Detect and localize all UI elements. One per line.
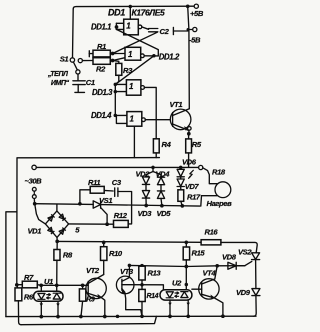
svg-text:С3: С3 bbox=[112, 178, 122, 187]
svg-text:R14: R14 bbox=[147, 293, 159, 300]
svg-text:VD1: VD1 bbox=[28, 227, 42, 236]
svg-text:R12: R12 bbox=[114, 211, 128, 220]
svg-text:R15: R15 bbox=[192, 248, 206, 257]
svg-text:С2: С2 bbox=[160, 27, 170, 36]
svg-text:К176ЛЕ5: К176ЛЕ5 bbox=[132, 8, 166, 18]
svg-text:DD1: DD1 bbox=[108, 8, 125, 18]
svg-text:R16: R16 bbox=[205, 227, 219, 236]
svg-text:VD7: VD7 bbox=[185, 182, 200, 191]
svg-text:ИМП“: ИМП“ bbox=[51, 80, 70, 87]
svg-text:С1: С1 bbox=[86, 78, 95, 87]
svg-text:R17: R17 bbox=[187, 192, 201, 201]
svg-text:R10: R10 bbox=[109, 249, 123, 258]
svg-text:Нагрев: Нагрев bbox=[207, 199, 233, 208]
svg-text:U2: U2 bbox=[172, 279, 182, 288]
svg-text:-5В: -5В bbox=[189, 36, 201, 45]
svg-text:VT1: VT1 bbox=[170, 100, 183, 109]
svg-text:R3: R3 bbox=[123, 66, 133, 75]
svg-text:R1: R1 bbox=[97, 42, 106, 51]
svg-text:R11: R11 bbox=[88, 178, 100, 187]
svg-text:VD2: VD2 bbox=[136, 170, 151, 179]
svg-text:DD1.2: DD1.2 bbox=[159, 53, 180, 62]
svg-text:DD1.4: DD1.4 bbox=[91, 111, 112, 120]
svg-text:DD1.3: DD1.3 bbox=[92, 88, 113, 97]
svg-text:VS1: VS1 bbox=[99, 196, 112, 205]
svg-text:R13: R13 bbox=[148, 268, 162, 277]
svg-text:R18: R18 bbox=[212, 168, 226, 177]
svg-text:VD3: VD3 bbox=[138, 209, 153, 218]
svg-text:~30В: ~30В bbox=[25, 176, 43, 185]
svg-text:VT4: VT4 bbox=[203, 268, 217, 277]
svg-text:VD8: VD8 bbox=[222, 252, 237, 261]
svg-text:R2: R2 bbox=[96, 64, 106, 73]
svg-text:R8: R8 bbox=[63, 250, 73, 259]
svg-text:VD9: VD9 bbox=[236, 288, 251, 297]
svg-text:+5В: +5В bbox=[190, 9, 204, 18]
svg-text:VD4: VD4 bbox=[156, 170, 171, 179]
svg-text:VD5: VD5 bbox=[157, 209, 172, 218]
svg-text:VT2: VT2 bbox=[86, 266, 100, 275]
svg-text:VD6: VD6 bbox=[182, 157, 197, 166]
svg-text:5: 5 bbox=[75, 225, 80, 234]
svg-text:R5: R5 bbox=[192, 140, 202, 149]
svg-text:R6: R6 bbox=[24, 292, 34, 301]
svg-text:VS2: VS2 bbox=[238, 247, 252, 256]
svg-text:U1: U1 bbox=[44, 277, 53, 286]
svg-text:S1: S1 bbox=[60, 54, 69, 63]
svg-text:R9: R9 bbox=[86, 297, 95, 304]
svg-text:DD1.1: DD1.1 bbox=[91, 23, 111, 32]
svg-text:R7: R7 bbox=[24, 273, 34, 282]
svg-text:R4: R4 bbox=[162, 140, 172, 149]
svg-text:VT3: VT3 bbox=[120, 267, 134, 276]
svg-text:„ТЕПЛ: „ТЕПЛ bbox=[47, 71, 68, 78]
